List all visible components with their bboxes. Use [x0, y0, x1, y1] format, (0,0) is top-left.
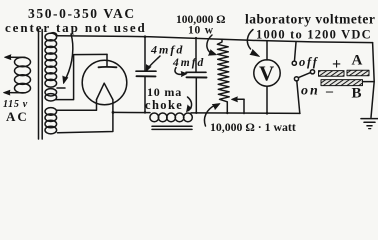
tube V1 filament [97, 83, 113, 99]
callout arrow to C2 [175, 68, 184, 75]
wire wiper to output rail [243, 99, 245, 113]
capacitor C1 plates [136, 70, 156, 72]
voltmeter M1 top lead [266, 41, 268, 60]
transformer T1 primary winding [15, 57, 31, 67]
choke L1 core [152, 125, 192, 127]
callout arrow to C1 [148, 56, 161, 69]
svg-text:10 w: 10 w [188, 25, 214, 37]
transformer T1 secondary winding lower [45, 89, 57, 96]
wire terminal B to ground rail [363, 81, 375, 83]
svg-text:–: – [325, 84, 334, 99]
wire filament right leg to winding bottom [58, 100, 113, 133]
voltmeter M1 body [254, 60, 280, 86]
capacitor C2 top lead [195, 38, 197, 72]
svg-text:center tap not used: center tap not used [5, 20, 147, 35]
terminal A bar segment 1 [319, 71, 345, 77]
svg-text:4mfd: 4mfd [150, 43, 184, 57]
switch S1 arm [299, 73, 311, 78]
svg-text:off: off [299, 55, 319, 69]
svg-text:350-0-350 VAC: 350-0-350 VAC [28, 6, 136, 21]
resistor R1 100000 ohm and R2 10000 ohm zigzag [217, 39, 229, 113]
voltmeter M1 bottom lead [266, 86, 268, 113]
svg-text:choke: choke [145, 98, 183, 112]
wire primary lead bottom with arrow [6, 92, 25, 94]
tube V1 envelope [82, 60, 127, 105]
wire right vertical to ground [371, 43, 374, 118]
choke L1 winding [150, 113, 159, 122]
wire secondary bottom to plate loop [56, 54, 107, 99]
junction C1 bottom rail [144, 111, 146, 113]
switch S1 lead from rail [295, 42, 297, 60]
svg-text:B: B [352, 86, 362, 102]
callout arrow to center tap [65, 34, 73, 81]
wire top rail B- [57, 36, 373, 43]
transformer T1 secondary winding upper [51, 33, 58, 36]
svg-text:V: V [259, 62, 274, 86]
ground symbol [361, 118, 378, 120]
svg-text:4mfd: 4mfd [172, 57, 205, 69]
svg-text:A: A [352, 53, 363, 69]
callout arrow to R2 [204, 105, 216, 127]
node center tap stub [57, 87, 65, 89]
capacitor C1 bottom lead [144, 77, 146, 113]
svg-text:laboratory voltmeter: laboratory voltmeter [245, 12, 375, 27]
capacitor C1 top lead [144, 37, 146, 71]
tube V1 plate [106, 54, 108, 66]
switch S1 on contact [294, 77, 298, 81]
junction filament B+ [112, 111, 115, 114]
svg-text:10 ma: 10 ma [147, 85, 182, 99]
wire B+ rail choke to resistor [191, 112, 300, 115]
svg-text:AC: AC [6, 109, 29, 124]
wire on contact to output rail [297, 81, 300, 113]
terminal A bar segment 2 [347, 70, 369, 76]
wire filament left leg to winding [57, 100, 97, 111]
svg-text:10,000 Ω · 1 watt: 10,000 Ω · 1 watt [210, 120, 296, 134]
svg-text:on: on [301, 84, 320, 99]
switch S1 pivot [310, 70, 314, 74]
switch S1 off contact [292, 61, 296, 65]
transformer T1 core [38, 30, 40, 140]
terminal B bar [321, 80, 363, 86]
callout arrow to choke [188, 97, 192, 111]
wire primary lead top with arrow [7, 56, 25, 58]
svg-text:1000 to 1200 VDC: 1000 to 1200 VDC [256, 28, 372, 42]
junction R1 bottom rail [226, 112, 228, 114]
transformer T1 filament winding [45, 108, 57, 116]
junction C2 bottom rail [195, 112, 197, 114]
wiper arrow of R2 [236, 98, 245, 100]
wire B+ rail to choke [113, 111, 150, 113]
capacitor C2 plates [186, 71, 206, 73]
callout arrow to R1 [207, 35, 212, 52]
callout arrow to voltmeter [247, 30, 253, 50]
junction C2 top rail [195, 37, 197, 39]
capacitor C2 bottom lead [195, 78, 197, 113]
junction voltmeter bottom [266, 112, 269, 115]
junction C1 rail [144, 35, 147, 38]
